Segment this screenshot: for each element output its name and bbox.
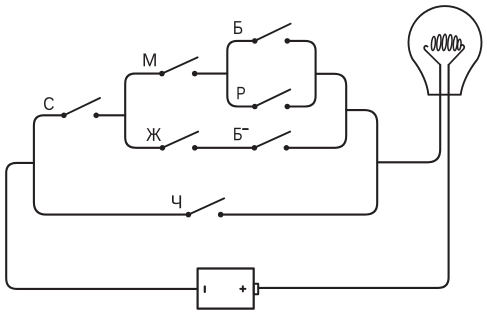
switch Ж: left contact dot — [160, 145, 166, 151]
wire: switch М right contact to Б/Р loop left junction — [195, 73, 228, 75]
switch Б⁻: lever — [254, 132, 290, 148]
wire: lamp right lead down to battery positive — [258, 65, 448, 288]
switch М: right contact dot — [192, 71, 198, 77]
switch Б: lever — [255, 24, 291, 41]
switch С label — [44, 97, 54, 110]
battery GB1: positive mark — [240, 286, 245, 291]
switch Р: left contact dot — [252, 104, 258, 110]
switch Ч: left contact dot — [186, 212, 192, 218]
switch Б: left contact dot — [252, 38, 258, 44]
switch С: right contact dot — [93, 113, 99, 119]
switch М: lever — [162, 57, 198, 73]
battery GB1: positive terminal tab — [254, 284, 259, 295]
switch Ж label — [146, 128, 161, 141]
switch С: lever — [64, 98, 100, 115]
lamp EL1: glass bulb outline — [408, 6, 481, 95]
switch Р: lever — [255, 90, 290, 107]
lamp EL1: filament coil — [431, 34, 462, 51]
switch Б label — [234, 21, 242, 34]
switch Б⁻: right contact dot — [284, 145, 290, 151]
switch Б⁻: left contact dot — [252, 145, 258, 151]
lamp EL1: filament left support arm — [424, 46, 440, 65]
lamp EL1: filament right support arm — [449, 45, 465, 65]
switch Ж: lever — [162, 132, 198, 148]
switch Ч: right contact dot — [218, 212, 224, 218]
wire: junction J1 to right-down vertical, junction J2, down to Ч right contact — [221, 110, 378, 215]
battery GB1: case — [198, 269, 254, 309]
wire: left vertical with corners to switch С (top) and switch Ч line (bottom) — [34, 115, 189, 214]
switch Р: right contact dot — [285, 104, 291, 110]
switch Ж: right contact dot — [192, 145, 198, 151]
switch Б: right contact dot — [285, 38, 291, 44]
switch М: left contact dot — [159, 71, 165, 77]
wire: switch Ж right contact to switch Б⁻ left contact — [195, 147, 255, 149]
switch Б⁻ label — [234, 128, 242, 140]
switch Р label — [237, 87, 245, 99]
wire: battery negative to left rail and node L on left vertical — [6, 163, 197, 289]
switch Ч: lever — [188, 198, 224, 214]
wire: node vertical splitting to М branch (up) and Ж branch (down) — [125, 74, 162, 148]
switch М label — [144, 54, 156, 67]
wire: node A to junction J1 and down to Б⁻ right contact — [286, 74, 346, 148]
switch Ч label — [172, 195, 181, 208]
switch Б⁻ label superscript minus — [243, 128, 248, 130]
wire: Б/Р loop left vertical splitting to Б (up) and Р (down) — [227, 41, 255, 107]
battery GB1: negative mark — [204, 287, 206, 292]
wire: Б/Р loop right vertical joining Б and Р right contacts, node A at middle — [287, 41, 315, 107]
switch С: left contact dot — [61, 113, 67, 119]
wire: junction J2 to lamp left lead — [377, 65, 440, 163]
wire: switch С right contact to node M/Ж split — [96, 114, 125, 116]
